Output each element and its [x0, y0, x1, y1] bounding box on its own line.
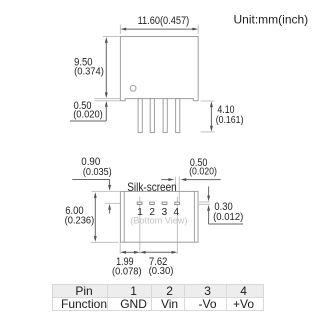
silk-screen line left	[123, 191, 125, 242]
svg-text:3: 3	[162, 207, 168, 218]
pin 1 front	[138, 99, 142, 133]
pin 3 front	[163, 99, 167, 133]
bottom view body outline	[120, 191, 198, 242]
svg-text:(0.020): (0.020)	[189, 166, 217, 177]
dimension 9.50 body height	[74, 37, 120, 99]
svg-text:(0.035): (0.035)	[83, 167, 112, 178]
pin 4 front	[176, 99, 180, 133]
svg-text:(0.012): (0.012)	[213, 212, 243, 223]
pin1 marker circle	[130, 85, 136, 91]
silk-screen label	[127, 180, 177, 194]
svg-text:Unit:mm(inch): Unit:mm(inch)	[234, 13, 309, 27]
dimension 7.62 pin1 to pin4	[140, 251, 178, 277]
svg-text:(0.30): (0.30)	[149, 266, 174, 277]
pin 2 front	[150, 99, 154, 133]
dimension 0.30 pad height	[199, 187, 243, 225]
svg-text:4.10: 4.10	[217, 104, 234, 116]
front view body outline	[120, 37, 198, 101]
svg-text:2: 2	[149, 207, 155, 218]
dimension 1.99 edge to pin1	[112, 243, 142, 278]
svg-text:(0.236): (0.236)	[65, 216, 95, 227]
bottom view label	[130, 215, 187, 225]
pad 4	[175, 202, 180, 204]
extension line pin4 center	[176, 197, 178, 254]
pad 1	[137, 202, 142, 204]
dimension 0.50 pad width	[161, 157, 221, 201]
svg-text:1: 1	[137, 207, 143, 218]
dimension 0.50 standoff	[70, 99, 120, 121]
svg-text:(0.078): (0.078)	[112, 266, 142, 277]
pad numbers 1 2 3 4	[137, 207, 179, 218]
unit note	[234, 13, 309, 27]
svg-text:(0.020): (0.020)	[73, 109, 103, 120]
svg-text:(0.161): (0.161)	[216, 115, 244, 126]
extension line pin1 center	[139, 197, 141, 254]
svg-text:4: 4	[174, 207, 180, 218]
silk-screen line right	[193, 191, 195, 242]
pad 2	[150, 202, 155, 204]
svg-text:Silk-screen: Silk-screen	[127, 180, 177, 194]
pad 3	[162, 202, 167, 204]
svg-text:11.60(0.457): 11.60(0.457)	[138, 15, 190, 27]
dimension 6.00 body height bottom view	[65, 191, 121, 242]
svg-text:(0.374): (0.374)	[74, 66, 104, 77]
dimension 4.10 pin length	[201, 101, 244, 132]
pin function table	[52, 284, 264, 311]
dimension 0.90 edge to pad	[72, 156, 120, 213]
dimension 11.60 body width	[120, 15, 198, 34]
